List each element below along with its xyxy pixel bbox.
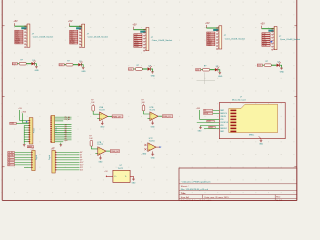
power labels above connector A1 — [18, 108, 27, 123]
title block texts — [181, 180, 283, 202]
svg-text:PWM_D6*: PWM_D6* — [111, 151, 120, 153]
svg-text:V+: V+ — [114, 176, 116, 178]
sheet background — [0, 0, 300, 203]
connector J2 (top row unit 2) — [68, 20, 108, 48]
connector J3 (top row unit 3) — [132, 24, 172, 52]
svg-text:CLK/SCLK: CLK/SCLK — [220, 122, 229, 124]
wires out of connector B2 — [57, 152, 80, 170]
page frame left border — [1, 0, 3, 200]
svg-text:TL072: TL072 — [97, 144, 104, 146]
svg-text:VSS: VSS — [220, 125, 223, 127]
body outline — [219, 103, 285, 139]
connector J4 (top row unit 4) — [205, 22, 245, 50]
card shape — [229, 104, 278, 132]
connector A1 body — [29, 118, 36, 144]
svg-text:A10: A10 — [65, 139, 68, 142]
contact pads — [230, 110, 236, 133]
SD VSS ground — [198, 125, 220, 132]
SD SCK wire/label — [197, 120, 220, 123]
svg-text:MOSI: MOSI — [204, 113, 209, 115]
op-amp circuit 4 (unused half, inputs crossed) — [142, 138, 161, 160]
labels right of B2 — [80, 152, 84, 172]
SD +3V3 power — [196, 108, 220, 119]
junction dot near J5 — [271, 41, 273, 43]
svg-text:D10*: D10* — [80, 162, 84, 164]
svg-text:Micro_SD_Card: Micro_SD_Card — [232, 99, 245, 102]
svg-text:D12: D12 — [80, 167, 83, 169]
connector J1 (top row unit 1) — [13, 20, 53, 48]
svg-text:CMD/DI: CMD/DI — [220, 116, 226, 118]
label PWR to connector A1 — [10, 122, 29, 125]
connector A2 body — [50, 115, 57, 142]
svg-text:D7: D7 — [80, 155, 82, 157]
resistor-LED unit 4 — [196, 66, 223, 78]
svg-text:SS: SS — [204, 110, 206, 112]
connector B1 body — [30, 148, 38, 170]
svg-text:GND: GND — [142, 153, 147, 155]
wires out of connector A2 — [55, 117, 72, 142]
svg-text:Digital: Digital — [35, 154, 38, 160]
resistor-LED unit 5 — [257, 61, 284, 73]
SD hookup: SS and MOSI labels — [204, 109, 220, 115]
svg-text:D4: D4 — [8, 162, 10, 164]
wires into connector A1 — [20, 121, 29, 143]
svg-text:Date: mar. 31 mars 2015: Date: mar. 31 mars 2015 — [205, 196, 230, 199]
svg-text:PWM_D5*: PWM_D5* — [163, 116, 172, 118]
page frame right border — [296, 0, 298, 200]
connector B2 body — [48, 148, 57, 173]
svg-text:D8: D8 — [80, 157, 82, 159]
op-amp circuit 2 — [142, 99, 173, 128]
micro SD card socket J? — [219, 96, 285, 145]
svg-text:KiCad E.D.A. kicad 4.0.2-stab: KiCad E.D.A. kicad 4.0.2-stable — [181, 199, 212, 202]
frame ticks — [2, 26, 297, 167]
svg-text:D11*: D11* — [80, 165, 84, 167]
svg-text:J?: J? — [240, 96, 242, 98]
svg-text:Sheet: /: Sheet: / — [181, 185, 189, 188]
svg-text:Size: A4: Size: A4 — [181, 196, 190, 199]
svg-text:Title:: Title: — [181, 192, 186, 195]
junction node (blue) — [26, 121, 27, 122]
wires into connector B1 — [15, 152, 32, 167]
svg-text:D6*: D6* — [80, 152, 83, 154]
connector J5 (top row unit 5) — [260, 23, 300, 51]
svg-text:D3*: D3* — [8, 160, 11, 162]
svg-text:D2: D2 — [8, 157, 10, 159]
svg-text:GND: GND — [151, 158, 156, 160]
svg-text:File: 123-45678-90_a13.sch: File: 123-45678-90_a13.sch — [181, 189, 209, 191]
op-amp circuit 1 — [91, 100, 123, 129]
ground below A2 — [52, 143, 63, 150]
svg-text:TL072: TL072 — [149, 140, 156, 142]
svg-text:TL072: TL072 — [118, 168, 123, 170]
svg-text:* indicates a PWM capable pin: * indicates a PWM capable pin — [181, 180, 211, 183]
op-amp circuit 3 — [89, 136, 119, 164]
svg-text:TL072: TL072 — [99, 110, 106, 112]
title block frame — [179, 168, 297, 200]
svg-text:D5*: D5* — [8, 165, 11, 167]
svg-text:+3V3: +3V3 — [196, 108, 200, 110]
SD MISO label — [204, 126, 219, 129]
svg-text:SHELL: SHELL — [249, 135, 254, 137]
labels right of A2 — [65, 116, 70, 142]
ground below A1 — [23, 143, 26, 146]
resistor-LED unit 2 — [59, 61, 86, 73]
page frame bottom border — [2, 199, 297, 201]
svg-text:D9*: D9* — [80, 160, 83, 162]
resistor-LED unit 3 — [128, 65, 155, 77]
IC U? power box — [104, 165, 136, 184]
svg-text:D13: D13 — [80, 170, 83, 172]
svg-text:RV_A1: RV_A1 — [65, 118, 70, 121]
faint gray crosshair — [197, 73, 216, 85]
svg-text:Power: Power — [34, 128, 36, 133]
svg-text:TL072: TL072 — [149, 109, 156, 111]
svg-text:Rev:: Rev: — [276, 197, 281, 199]
labels left of connector B1 — [8, 152, 15, 167]
label right of A1 ground — [27, 146, 33, 149]
svg-text:Id: 1/1: Id: 1/1 — [276, 200, 283, 202]
resistor-LED unit 1 — [12, 60, 39, 72]
svg-text:Digital: Digital — [48, 154, 51, 160]
pin names — [220, 109, 229, 133]
svg-text:PWM_D3*: PWM_D3* — [113, 116, 122, 118]
